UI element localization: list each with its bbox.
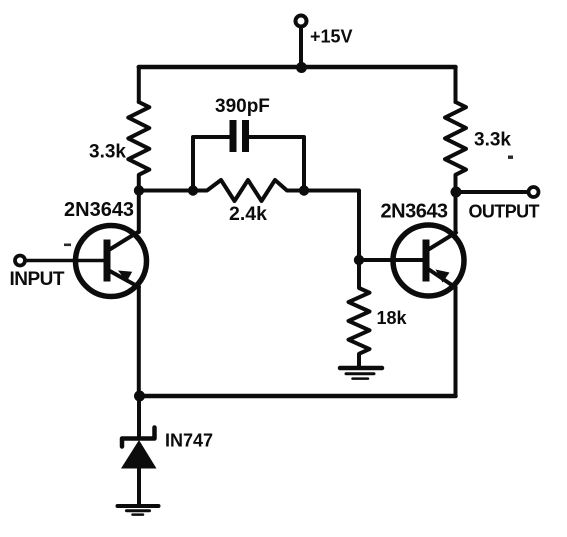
- svg-text:2N3643: 2N3643: [64, 199, 134, 221]
- svg-text:18k: 18k: [377, 308, 408, 328]
- svg-text:2.4k: 2.4k: [229, 203, 267, 225]
- svg-text:+15V: +15V: [310, 27, 353, 47]
- svg-text:OUTPUT: OUTPUT: [469, 202, 540, 222]
- svg-text:IN747: IN747: [165, 431, 213, 451]
- svg-text:2N3643: 2N3643: [381, 201, 448, 223]
- svg-text:INPUT: INPUT: [10, 269, 65, 290]
- svg-text:3.3k: 3.3k: [89, 142, 126, 163]
- svg-text:3.3k: 3.3k: [474, 130, 511, 151]
- svg-text:390pF: 390pF: [215, 96, 270, 117]
